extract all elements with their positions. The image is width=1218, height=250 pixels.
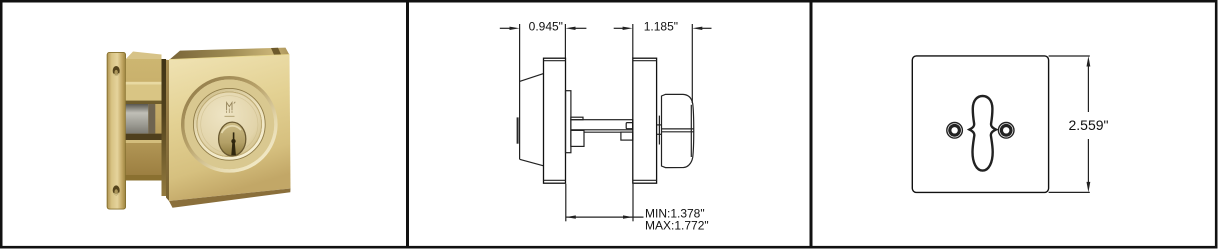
keyway boss <box>219 122 246 156</box>
spindle bar <box>571 120 633 130</box>
dim arrow up <box>1087 56 1091 67</box>
thumbturn mid seam bottom <box>662 131 694 133</box>
exterior plate bevel bottom <box>544 179 566 181</box>
faceplate screw hole bottom <box>113 185 120 195</box>
dim extension top <box>1049 55 1090 57</box>
svg-text:MAX:1.772": MAX:1.772" <box>645 219 709 233</box>
collar <box>566 91 571 153</box>
dimension 1.185 line left tail <box>614 27 624 29</box>
circular recess ring <box>181 76 278 173</box>
vertical dimension line <box>1087 64 1089 112</box>
svg-text:1.185": 1.185" <box>644 20 678 34</box>
thumbturn stem top <box>657 124 662 126</box>
M logo <box>225 102 236 117</box>
dim arrow down <box>1087 182 1091 193</box>
latch body <box>126 52 162 181</box>
exterior plate <box>544 58 566 183</box>
thumbturn knob outline <box>662 94 694 167</box>
bottom dim arrow right <box>623 215 633 218</box>
latch faceplate strip <box>107 52 126 210</box>
thumbturn collar line <box>658 116 660 145</box>
panel divider left <box>406 2 409 247</box>
keyhole <box>231 132 236 155</box>
plate front face <box>169 55 291 201</box>
panel divider right <box>810 2 813 247</box>
screw hole right <box>998 123 1014 139</box>
dimension 0.945 arrow right <box>566 27 576 30</box>
dimension 0.945 arrow left <box>510 27 520 30</box>
latch shadow sliver <box>162 59 167 196</box>
spindle flange top <box>571 117 583 120</box>
bottom dim extension right <box>632 184 634 222</box>
spindle clip <box>626 123 633 129</box>
extension line 1.185 left <box>632 24 634 58</box>
deadbolt (gray) <box>126 104 156 134</box>
faceplate screw hole top <box>113 66 120 76</box>
exterior plate bevel top <box>544 60 566 62</box>
thumbturn mid seam top <box>662 128 694 130</box>
cylinder face bar <box>517 117 519 143</box>
thumbturn stem bottom <box>657 133 662 135</box>
plate top surface <box>169 48 290 60</box>
bottom dim extension left <box>565 184 567 222</box>
dimension 0.945 line left tail <box>500 27 511 29</box>
screw hole left <box>947 123 963 139</box>
extension line (housing front + 0.945 left) <box>519 24 521 159</box>
spindle lower right box <box>621 132 633 140</box>
dimension 1.185 line right tail <box>701 27 711 29</box>
dimension 0.945 line right tail <box>575 27 587 29</box>
plate left side (shadow) <box>166 60 169 201</box>
interior plate bevel top <box>633 60 657 62</box>
dim extension bottom <box>1049 191 1090 193</box>
interior plate <box>633 58 657 183</box>
extension line 1.185 right <box>691 24 693 103</box>
svg-text:0.945": 0.945" <box>529 20 563 34</box>
dimension 1.185 arrow right <box>692 27 702 30</box>
svg-text:2.559": 2.559" <box>1068 117 1108 133</box>
spindle lower box <box>571 130 584 146</box>
plate bottom rim <box>169 189 291 208</box>
bottom dim arrow left <box>566 215 576 218</box>
interior plate bevel bottom <box>633 179 657 181</box>
thumbturn knob silhouette line <box>690 105 692 157</box>
bottom dimension line <box>566 216 644 218</box>
housing taper top <box>520 74 544 82</box>
spindle mid line <box>584 131 621 133</box>
thumbturn front shape <box>969 96 996 171</box>
extension line 0.945 right <box>564 24 566 58</box>
dimension 1.185 arrow left <box>623 27 633 30</box>
cylinder outer ring <box>193 88 265 160</box>
housing taper bottom <box>520 159 544 166</box>
interior plate square <box>912 56 1048 193</box>
